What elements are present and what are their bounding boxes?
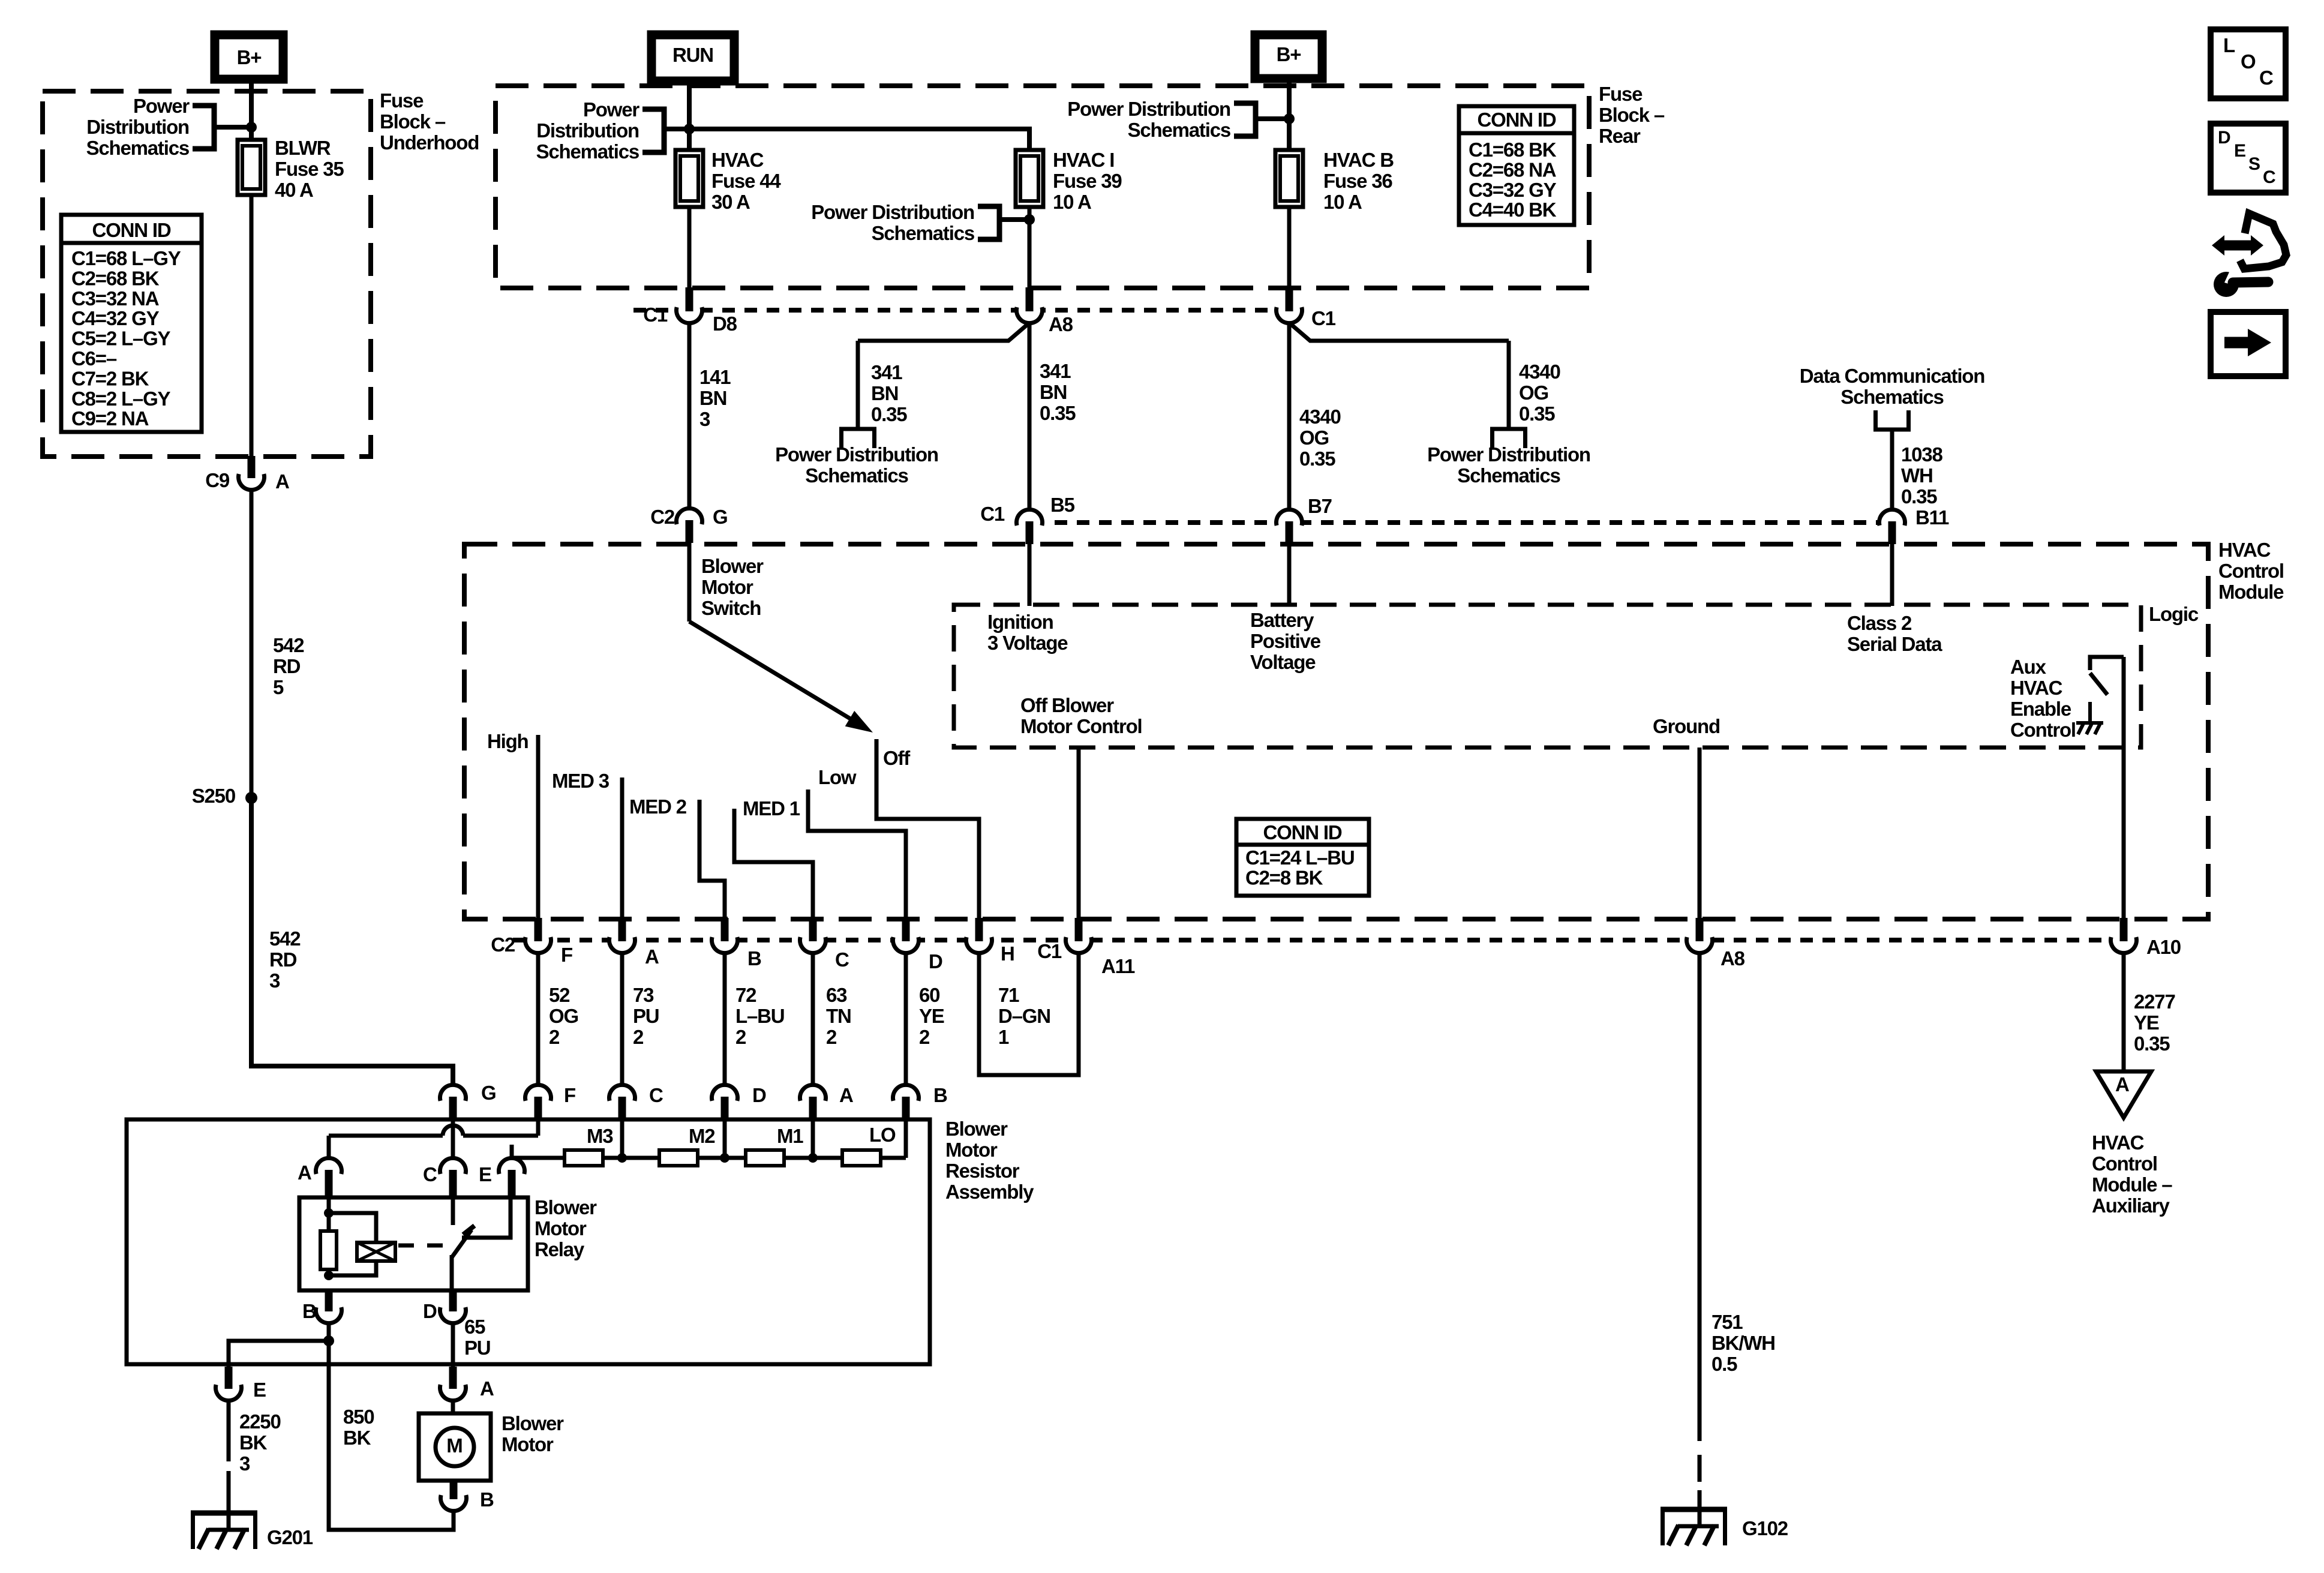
- svg-text:C: C: [2259, 67, 2274, 89]
- svg-text:WH: WH: [1901, 464, 1933, 487]
- svg-text:0.35: 0.35: [1299, 448, 1335, 470]
- power symbol B+ (rear): [1255, 35, 1322, 79]
- svg-text:Motor: Motor: [945, 1139, 998, 1161]
- svg-text:B: B: [933, 1084, 947, 1106]
- wire off blower motor control to A11: [1077, 748, 1081, 920]
- ground G201: [191, 1511, 257, 1516]
- svg-text:HVAC I: HVAC I: [1053, 149, 1114, 171]
- svg-text:E: E: [479, 1163, 491, 1185]
- svg-text:Rear: Rear: [1599, 125, 1641, 147]
- pointer bracket to fuse 39 wire: [978, 206, 999, 239]
- svg-text:D–GN: D–GN: [998, 1005, 1050, 1027]
- CONN ID table (underhood): [61, 215, 202, 432]
- svg-text:CONN ID: CONN ID: [92, 219, 171, 241]
- svg-text:0.35: 0.35: [1519, 403, 1555, 425]
- svg-text:10 A: 10 A: [1053, 191, 1091, 213]
- wire 141 BN 3: [687, 323, 692, 508]
- wire B7 to logic (Battery Positive Voltage): [1287, 542, 1292, 606]
- wire 850 BK (relay B to motor B): [329, 1341, 454, 1530]
- blower motor switch blade with arrow: [689, 622, 860, 725]
- svg-text:B5: B5: [1050, 494, 1075, 516]
- wire 542 RD 5: [250, 490, 254, 798]
- wire B+ down (rear): [1287, 79, 1292, 151]
- svg-text:Distribution: Distribution: [86, 116, 189, 138]
- wire 63 TN 2: [811, 953, 815, 1108]
- svg-text:D: D: [752, 1084, 766, 1106]
- junction dot (A): [808, 1153, 818, 1163]
- svg-text:C: C: [2263, 167, 2276, 187]
- connector C (module): [798, 926, 827, 954]
- resistor chain wire: [512, 1156, 906, 1160]
- relay connector A: [314, 1157, 343, 1185]
- relay connector D: [439, 1296, 467, 1325]
- wire 52 OG 2: [536, 953, 541, 1108]
- svg-text:60: 60: [919, 984, 939, 1006]
- resistor M1: [746, 1150, 784, 1166]
- svg-text:63: 63: [826, 984, 847, 1006]
- svg-text:C4=32 GY: C4=32 GY: [71, 307, 160, 329]
- wire ground to A8: [1698, 748, 1702, 920]
- svg-text:HVAC: HVAC: [2092, 1131, 2144, 1154]
- wire relay D to motor A (65 PU): [451, 1323, 455, 1375]
- wire A stub to chain: [811, 1117, 815, 1158]
- fuse HVAC B Fuse 36 10 A: [1275, 150, 1303, 207]
- stub from data communication schematics: [1873, 428, 1911, 432]
- svg-text:A: A: [645, 945, 659, 968]
- relay switch blade: [452, 1230, 472, 1257]
- svg-text:Blower: Blower: [701, 555, 764, 577]
- svg-text:0.35: 0.35: [1901, 485, 1937, 508]
- svg-text:BN: BN: [699, 387, 726, 409]
- wire G continue to relay C: [451, 1136, 455, 1158]
- svg-text:HVAC: HVAC: [2010, 677, 2062, 699]
- svg-text:C8=2 L–GY: C8=2 L–GY: [71, 388, 171, 410]
- svg-text:Fuse 44: Fuse 44: [711, 170, 781, 192]
- svg-text:O: O: [2241, 50, 2256, 73]
- svg-text:C6=–: C6=–: [71, 347, 117, 370]
- svg-text:Assembly: Assembly: [945, 1181, 1034, 1203]
- svg-text:Power Distribution: Power Distribution: [811, 201, 974, 223]
- svg-text:Fuse 39: Fuse 39: [1053, 170, 1122, 192]
- svg-text:M1: M1: [777, 1125, 803, 1147]
- svg-text:A8: A8: [1049, 313, 1073, 335]
- svg-text:Schematics: Schematics: [872, 222, 974, 244]
- svg-text:L: L: [2223, 34, 2235, 56]
- svg-text:CONN ID: CONN ID: [1263, 821, 1342, 843]
- svg-text:YE: YE: [919, 1005, 944, 1027]
- svg-text:3: 3: [269, 969, 280, 992]
- svg-text:HVAC B: HVAC B: [1323, 149, 1394, 171]
- svg-text:A8: A8: [1721, 947, 1745, 969]
- dashed box Logic: [954, 605, 2141, 748]
- off-page triangle A (HVAC aux): [2096, 1071, 2151, 1118]
- svg-text:D: D: [423, 1300, 437, 1322]
- svg-text:Blower: Blower: [945, 1118, 1008, 1140]
- svg-text:Schematics: Schematics: [86, 137, 189, 159]
- wire RUN down: [687, 81, 692, 151]
- wire 4340 OG 0.35 to B7: [1287, 323, 1292, 508]
- relay switch to D: [450, 1255, 454, 1293]
- svg-text:C9=2 NA: C9=2 NA: [71, 407, 149, 430]
- svg-text:Power Distribution: Power Distribution: [1067, 98, 1230, 120]
- svg-text:C: C: [649, 1084, 663, 1106]
- wire B+ to BLWR fuse: [249, 79, 254, 142]
- svg-text:Resistor: Resistor: [945, 1160, 1020, 1182]
- wire D stub to chain: [723, 1117, 727, 1158]
- connector E (ground path): [214, 1373, 243, 1402]
- svg-text:C1=68 BK: C1=68 BK: [1469, 139, 1557, 161]
- svg-text:30 A: 30 A: [711, 191, 750, 213]
- svg-text:40 A: 40 A: [275, 179, 313, 201]
- svg-text:E: E: [253, 1379, 266, 1401]
- chassis ground (aux): [2076, 721, 2103, 725]
- relay coil: [357, 1242, 395, 1261]
- connector B (module): [710, 926, 739, 954]
- svg-text:Relay: Relay: [535, 1238, 585, 1260]
- svg-text:71: 71: [998, 984, 1019, 1006]
- svg-text:C1: C1: [1311, 307, 1336, 329]
- wire G to relay C: [451, 1117, 455, 1158]
- box Blower Motor: [419, 1413, 491, 1481]
- connector A (resistor assembly): [798, 1083, 827, 1112]
- wire 72 L-BU 2: [723, 953, 727, 1108]
- CONN ID table (rear): [1459, 106, 1574, 225]
- svg-text:B: B: [480, 1488, 494, 1511]
- connector F (resistor assembly): [524, 1083, 553, 1112]
- wire C2/G into switch: [687, 541, 692, 622]
- svg-text:Battery: Battery: [1250, 609, 1314, 631]
- svg-text:Control: Control: [2218, 560, 2284, 582]
- wire B5 to logic (Ignition 3 Voltage): [1028, 542, 1032, 606]
- svg-text:BK: BK: [343, 1427, 371, 1449]
- wire B down to chain: [904, 1117, 908, 1158]
- wire 71 D-GN 1 (H to A11): [979, 953, 1079, 1075]
- svg-text:S250: S250: [192, 785, 235, 807]
- svg-text:OG: OG: [549, 1005, 578, 1027]
- svg-text:Enable: Enable: [2010, 698, 2071, 720]
- wire E to G201 with dash: [227, 1400, 231, 1461]
- svg-text:A: A: [275, 470, 289, 493]
- svg-text:Motor: Motor: [535, 1217, 587, 1239]
- svg-text:Fuse 35: Fuse 35: [275, 158, 344, 180]
- svg-text:RUN: RUN: [672, 44, 713, 66]
- svg-text:Motor Control: Motor Control: [1020, 715, 1142, 737]
- svg-text:Low: Low: [818, 766, 857, 788]
- svg-text:Blower: Blower: [502, 1412, 564, 1434]
- icon component outline (diagnostic): [2240, 214, 2286, 269]
- svg-text:3: 3: [239, 1452, 250, 1475]
- connector B7: [1275, 508, 1304, 537]
- svg-text:Schematics: Schematics: [1840, 386, 1943, 408]
- svg-text:Ground: Ground: [1653, 715, 1720, 737]
- dashed box HVAC Control Module: [464, 544, 2208, 919]
- svg-text:S: S: [2248, 154, 2260, 174]
- svg-text:Data Communication: Data Communication: [1800, 365, 1984, 387]
- svg-text:M2: M2: [689, 1125, 715, 1147]
- svg-text:M: M: [446, 1434, 463, 1457]
- svg-text:MED 3: MED 3: [552, 770, 609, 792]
- svg-text:2: 2: [919, 1026, 930, 1048]
- svg-text:Ignition: Ignition: [987, 611, 1053, 633]
- connector B (blower motor): [439, 1484, 468, 1512]
- svg-text:C3=32 GY: C3=32 GY: [1469, 179, 1557, 201]
- fuse BLWR Fuse 35 40 A: [238, 140, 265, 195]
- svg-text:Power: Power: [133, 95, 190, 117]
- svg-text:OG: OG: [1519, 382, 1548, 404]
- switch position Off: [876, 739, 979, 920]
- icon box LOC: [2211, 29, 2286, 98]
- svg-text:C2=8 BK: C2=8 BK: [1245, 866, 1323, 888]
- svg-text:10 A: 10 A: [1323, 191, 1362, 213]
- wire 73 PU 2: [620, 953, 624, 1108]
- svg-text:CONN ID: CONN ID: [1478, 109, 1556, 131]
- svg-text:HVAC: HVAC: [2218, 539, 2271, 561]
- svg-text:G: G: [481, 1082, 496, 1104]
- svg-text:Fuse: Fuse: [1599, 83, 1643, 105]
- svg-text:OG: OG: [1299, 427, 1329, 449]
- switch position Low: [808, 789, 906, 920]
- svg-text:2: 2: [633, 1026, 644, 1048]
- switch position MED 2: [699, 800, 725, 920]
- relay switch fixed contact (C): [451, 1195, 455, 1225]
- connector A8 (module ground): [1685, 926, 1714, 954]
- wire fuse 44 to C1/D8: [687, 207, 692, 288]
- svg-text:PU: PU: [464, 1337, 490, 1359]
- wire RUN junction to fuse 39: [689, 129, 1029, 151]
- svg-text:Schematics: Schematics: [805, 464, 908, 487]
- wire 751 BK/WH 0.5 (A8 to G102): [1698, 953, 1702, 1441]
- svg-text:1038: 1038: [1901, 443, 1942, 466]
- svg-text:0.35: 0.35: [2134, 1032, 2170, 1055]
- svg-text:Power Distribution: Power Distribution: [775, 443, 938, 466]
- pointer bracket to RUN wire: [642, 109, 664, 152]
- svg-text:M3: M3: [587, 1125, 613, 1147]
- icon box arrow (next): [2211, 312, 2286, 376]
- svg-text:D: D: [929, 950, 942, 972]
- connector C2 / G (module input): [675, 507, 704, 536]
- svg-text:2: 2: [735, 1026, 746, 1048]
- dashed box Fuse Block - Underhood: [43, 91, 371, 457]
- svg-text:Block –: Block –: [380, 110, 446, 133]
- connector C1 / D8: [675, 296, 704, 325]
- svg-text:B+: B+: [1277, 43, 1301, 65]
- svg-text:E: E: [2234, 141, 2246, 161]
- svg-text:850: 850: [343, 1406, 374, 1428]
- svg-text:Off: Off: [883, 747, 911, 769]
- svg-text:A: A: [298, 1161, 311, 1184]
- icon box DESC: [2211, 124, 2286, 193]
- wire 60 YE 2: [904, 953, 908, 1108]
- svg-text:G102: G102: [1742, 1517, 1788, 1539]
- connector D (module): [891, 926, 920, 954]
- aux hvac enable switch: [2090, 657, 2124, 670]
- connector B11: [1878, 508, 1906, 537]
- relay linkage dashes: [398, 1244, 456, 1248]
- svg-text:542: 542: [273, 634, 304, 656]
- svg-text:HVAC: HVAC: [711, 149, 764, 171]
- stub to power distribution schematics (4340): [1490, 427, 1527, 431]
- svg-text:C: C: [835, 948, 849, 971]
- svg-text:3: 3: [699, 408, 710, 430]
- svg-text:Control: Control: [2010, 719, 2076, 741]
- svg-text:Underhood: Underhood: [380, 131, 479, 154]
- svg-text:C5=2 L–GY: C5=2 L–GY: [71, 328, 171, 350]
- svg-text:73: 73: [633, 984, 654, 1006]
- relay coil circuit: [327, 1195, 331, 1275]
- svg-text:BN: BN: [1040, 381, 1067, 403]
- svg-text:L–BU: L–BU: [735, 1005, 784, 1027]
- svg-text:F: F: [564, 1084, 575, 1106]
- stub to power distribution schematics (341): [839, 427, 876, 431]
- connector A10 (module aux): [2109, 926, 2138, 954]
- wrench icon: [2214, 272, 2239, 297]
- wire motor A into motor: [451, 1400, 455, 1415]
- wire fuse 35 to connector C9: [250, 195, 254, 457]
- connector C1 (rear fuse block): [1275, 296, 1304, 325]
- relay E feed: [462, 1195, 511, 1238]
- svg-text:4340: 4340: [1519, 361, 1560, 383]
- svg-text:C2: C2: [491, 933, 515, 956]
- connector C (resistor assembly): [608, 1083, 636, 1112]
- svg-text:B: B: [302, 1300, 316, 1322]
- dotted connector line row B: [1055, 520, 1892, 525]
- svg-text:341: 341: [871, 361, 902, 383]
- svg-text:341: 341: [1040, 360, 1071, 382]
- svg-text:C2=68 BK: C2=68 BK: [71, 267, 160, 289]
- svg-text:542: 542: [269, 927, 301, 950]
- svg-text:Class 2: Class 2: [1847, 612, 1912, 634]
- blower motor symbol M: [436, 1428, 474, 1466]
- wire dashed to G102: [1698, 1455, 1702, 1482]
- svg-text:0.5: 0.5: [1712, 1353, 1737, 1375]
- icon double arrow: [2222, 241, 2254, 251]
- relay connector B: [314, 1296, 343, 1325]
- svg-text:Fuse: Fuse: [380, 89, 424, 112]
- svg-text:Switch: Switch: [701, 597, 761, 619]
- svg-text:C3=32 NA: C3=32 NA: [71, 287, 159, 310]
- svg-text:2: 2: [826, 1026, 837, 1048]
- splice S250: [245, 792, 257, 804]
- svg-text:YE: YE: [2134, 1011, 2159, 1034]
- svg-text:TN: TN: [826, 1005, 851, 1027]
- svg-text:Voltage: Voltage: [1250, 651, 1316, 673]
- box Blower Motor Resistor Assembly: [127, 1119, 930, 1364]
- svg-text:Motor: Motor: [701, 576, 753, 598]
- svg-text:F: F: [561, 944, 572, 966]
- svg-text:C1: C1: [643, 304, 668, 326]
- pointer bracket to B+ rear wire: [1234, 103, 1256, 136]
- resistor LO: [842, 1150, 881, 1166]
- connector C2 / F: [524, 926, 553, 954]
- svg-text:G: G: [713, 506, 727, 528]
- svg-text:Blower: Blower: [535, 1196, 597, 1218]
- svg-text:G201: G201: [267, 1526, 313, 1548]
- svg-text:Power: Power: [583, 98, 639, 121]
- connector C1 / B5: [1015, 508, 1044, 537]
- svg-text:PU: PU: [633, 1005, 659, 1027]
- wire B11 to logic (Class 2 Serial Data): [1890, 542, 1894, 606]
- relay suppression resistor: [320, 1231, 337, 1269]
- svg-text:B: B: [747, 947, 761, 969]
- svg-text:C2=68 NA: C2=68 NA: [1469, 158, 1556, 181]
- svg-text:1: 1: [998, 1026, 1009, 1048]
- wire to E connector (2250 BK 3): [229, 1341, 329, 1375]
- connector C9 / A: [237, 463, 266, 491]
- connector H (module): [965, 926, 993, 954]
- svg-text:H: H: [1001, 942, 1014, 965]
- svg-text:BK: BK: [239, 1431, 268, 1454]
- wire fuse 39 to A8: [1028, 207, 1032, 288]
- svg-text:B7: B7: [1308, 495, 1332, 517]
- svg-text:Auxiliary: Auxiliary: [2092, 1194, 2170, 1217]
- wire aux switch to A10: [2122, 657, 2126, 920]
- wire 542 RD 3: [251, 798, 453, 1085]
- svg-text:5: 5: [273, 676, 284, 698]
- connector A8: [1015, 296, 1044, 325]
- svg-text:3 Voltage: 3 Voltage: [987, 632, 1068, 654]
- connector B (resistor assembly): [891, 1083, 920, 1112]
- dotted connector line row A: [633, 308, 1289, 313]
- svg-text:MED 2: MED 2: [629, 795, 687, 818]
- svg-text:Block –: Block –: [1599, 104, 1665, 126]
- wire F to relay A with hop over G wire: [536, 1117, 541, 1136]
- svg-text:Fuse 36: Fuse 36: [1323, 170, 1392, 192]
- svg-text:2250: 2250: [239, 1410, 281, 1433]
- svg-text:751: 751: [1712, 1311, 1743, 1333]
- svg-text:C1=68 L–GY: C1=68 L–GY: [71, 247, 181, 269]
- svg-text:Module: Module: [2218, 581, 2284, 603]
- relay connector E: [497, 1157, 526, 1185]
- svg-text:C2: C2: [650, 506, 675, 528]
- svg-text:A: A: [480, 1377, 494, 1400]
- wire 341 BN branch to stub: [858, 323, 1029, 341]
- svg-text:0.35: 0.35: [1040, 402, 1076, 424]
- svg-text:Positive: Positive: [1250, 630, 1321, 652]
- switch position MED 3: [620, 778, 624, 920]
- svg-text:A11: A11: [1101, 955, 1135, 977]
- connector D (resistor assembly): [710, 1083, 739, 1112]
- svg-text:C9: C9: [205, 469, 230, 491]
- svg-text:B+: B+: [237, 46, 262, 68]
- svg-text:B11: B11: [1915, 506, 1949, 529]
- connector C1 / A11 (module): [1064, 926, 1093, 954]
- svg-text:Control: Control: [2092, 1152, 2157, 1175]
- svg-text:A: A: [839, 1084, 853, 1106]
- svg-text:BN: BN: [871, 382, 898, 404]
- ground G102: [1661, 1507, 1727, 1512]
- svg-text:D: D: [2218, 128, 2231, 148]
- svg-text:4340: 4340: [1299, 406, 1341, 428]
- connector A (blower motor): [439, 1373, 467, 1402]
- resistor M2: [659, 1150, 698, 1166]
- resistor M3: [565, 1150, 603, 1166]
- svg-text:LO: LO: [869, 1124, 896, 1146]
- svg-text:2277: 2277: [2134, 990, 2175, 1013]
- wire 4340 OG branch to stub: [1289, 323, 1509, 341]
- CONN ID table (module): [1236, 819, 1369, 896]
- svg-text:C1: C1: [980, 503, 1005, 525]
- junction dot (D): [720, 1153, 729, 1163]
- svg-text:BLWR: BLWR: [275, 137, 331, 159]
- switch position High: [536, 735, 541, 920]
- connector G (resistor assembly): [439, 1083, 467, 1112]
- dashed box Fuse Block - Rear: [496, 86, 1589, 288]
- wire G/F down to relay terminals: [327, 1158, 331, 1166]
- svg-text:C: C: [423, 1163, 437, 1185]
- svg-text:C1=24 L–BU: C1=24 L–BU: [1245, 846, 1355, 869]
- svg-text:Aux: Aux: [2010, 656, 2047, 678]
- svg-text:Power Distribution: Power Distribution: [1427, 443, 1590, 466]
